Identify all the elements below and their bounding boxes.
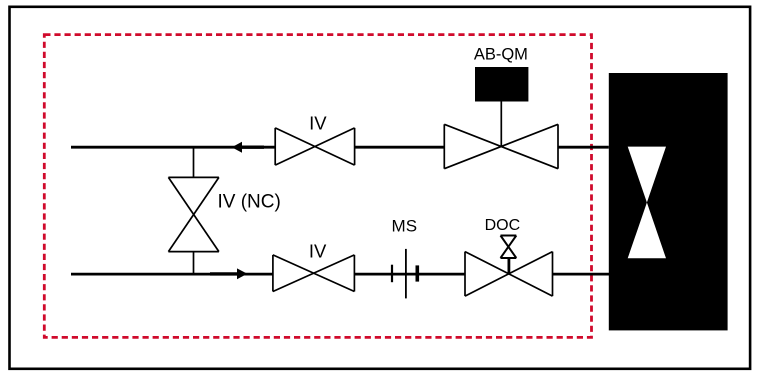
wire: top pipe middle segment xyxy=(355,146,445,149)
measurement station MS xyxy=(392,249,417,299)
DOC actuator stem xyxy=(507,258,510,274)
valve DOC xyxy=(465,252,553,297)
valve IV (top) xyxy=(275,128,354,165)
wire: top pipe left segment xyxy=(71,146,275,149)
svg-text:IV: IV xyxy=(309,112,327,133)
svg-text:IV: IV xyxy=(309,240,327,261)
DOC actuator mini-valve xyxy=(501,236,517,259)
wire: bottom pipe right segment xyxy=(553,273,610,276)
wire: bottom pipe left segment xyxy=(71,273,273,276)
valve IV (bottom) xyxy=(273,255,355,292)
node: branch junction on top pipe xyxy=(193,147,195,177)
red dashed boundary box xyxy=(44,35,591,338)
flow arrow (left-pointing) on top pipe xyxy=(240,145,264,148)
svg-text:AB-QM: AB-QM xyxy=(474,45,528,63)
svg-text:DOC: DOC xyxy=(485,217,521,234)
wire: bottom pipe middle segment xyxy=(354,273,465,276)
flow arrow (right-pointing) on bottom pipe xyxy=(210,272,238,275)
valve IV (NC), vertical xyxy=(168,177,219,251)
AB-QM actuator stem xyxy=(500,102,502,148)
wire: IV (NC) bottom stem xyxy=(193,252,195,275)
valve AB-QM xyxy=(444,124,558,168)
svg-text:MS: MS xyxy=(392,216,418,235)
terminal unit (black box) xyxy=(609,73,728,330)
white valve symbol inside terminal unit xyxy=(628,147,666,203)
svg-text:IV (NC): IV (NC) xyxy=(218,192,281,213)
wire: top pipe right segment xyxy=(558,146,609,149)
AB-QM actuator body xyxy=(475,67,528,102)
